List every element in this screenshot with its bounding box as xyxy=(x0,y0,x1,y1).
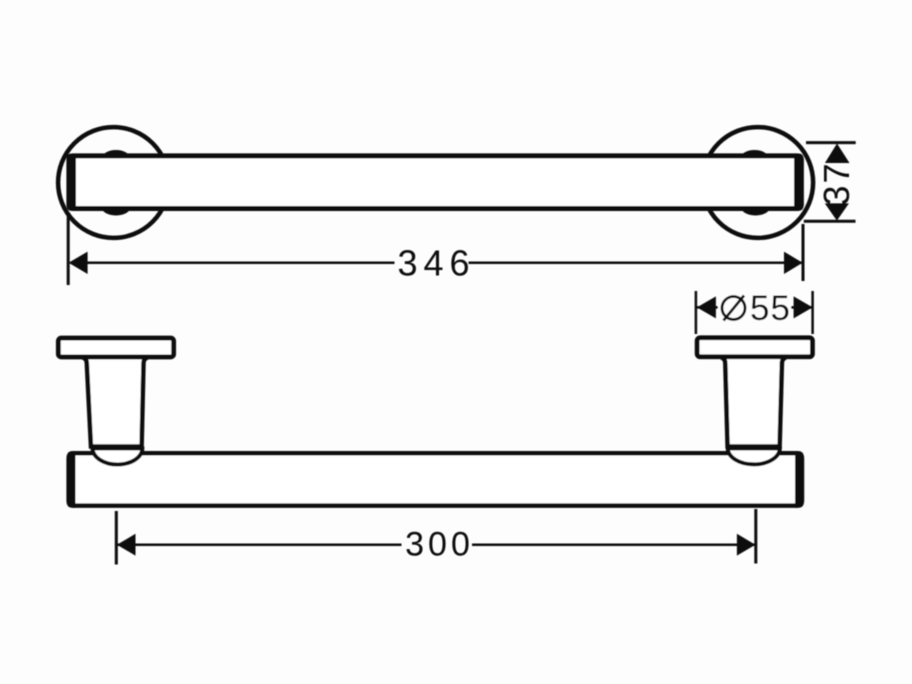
dimension O55: diameter symbol circle xyxy=(722,297,745,320)
dimension 300: left extension line xyxy=(115,511,118,565)
dimension 300: dimension line right segment xyxy=(472,544,755,547)
dimension O55: left extension line xyxy=(695,291,698,334)
dimension 346: dimension line left segment xyxy=(70,261,394,264)
dimension 346: right extension line xyxy=(802,224,805,281)
top view: bar body xyxy=(69,156,801,209)
top view: screw boss ellipse right-bottom xyxy=(742,201,770,216)
top view: bar left end cap xyxy=(66,154,76,211)
dimension O55: left arrowhead xyxy=(697,296,716,318)
bottom view: left post stem xyxy=(83,358,148,447)
top view: screw boss ellipse left-bottom xyxy=(102,201,130,216)
dimension O55: right extension line xyxy=(811,291,814,334)
bottom view: right stem dome over bar xyxy=(728,448,780,464)
bottom view: right post stem xyxy=(721,358,786,447)
top view: screw boss ellipse left-top xyxy=(102,150,131,168)
dimension 300: right extension line xyxy=(754,509,757,564)
top view: screw boss ellipse right-top xyxy=(740,150,769,168)
dimension O55: dimension line xyxy=(697,306,813,309)
dimension 300: dimension line left segment xyxy=(118,544,402,547)
dimension 346: dimension line right segment xyxy=(469,261,802,264)
top view: right rosette circle xyxy=(702,127,813,238)
bottom view: bar right end cap xyxy=(795,451,804,508)
bottom view: left rosette flange xyxy=(58,338,173,357)
bottom view: bar body xyxy=(69,453,802,505)
dimension 37: bottom extension line xyxy=(804,220,856,223)
bottom view: bar left end cap xyxy=(66,451,75,508)
dimension 346: left extension line xyxy=(67,213,70,285)
svg-text:300: 300 xyxy=(405,526,474,564)
top view: bar right end cap xyxy=(794,154,804,211)
bottom view: left stem dome over bar xyxy=(93,448,143,464)
dimension O55: text background xyxy=(718,292,791,323)
dimension 300: left arrowhead xyxy=(117,534,136,556)
dimension 300: right arrowhead xyxy=(737,534,756,556)
dimension 37: top extension line xyxy=(806,141,856,144)
svg-text:346: 346 xyxy=(397,243,475,284)
dimension O55: diameter symbol slash xyxy=(724,296,745,321)
dimension O55: right arrowhead xyxy=(794,296,813,318)
bottom view: right rosette flange xyxy=(697,338,812,357)
dimension 346: right arrowhead xyxy=(784,252,803,274)
dimension 37: down arrowhead xyxy=(825,203,849,220)
dimension 37: up arrowhead xyxy=(825,144,850,164)
svg-text:55: 55 xyxy=(750,289,791,328)
dimension 346: left arrowhead xyxy=(69,252,88,274)
svg-text:37: 37 xyxy=(816,161,857,205)
top view: left rosette circle xyxy=(58,127,169,238)
